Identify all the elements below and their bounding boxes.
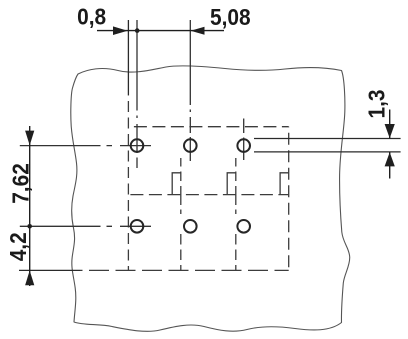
extension line x=128.4 (0,8 left / outline left edge), solid above plate: [127, 20, 129, 95]
arrow tip right at x=128.4 (0,8): [113, 26, 128, 35]
arrow down tip at row1: [25, 131, 34, 146]
dot marker at row2: [27, 224, 32, 229]
svg-text:7,62: 7,62: [7, 163, 33, 204]
dimension line top (0,8 / 5,08): [97, 30, 224, 32]
hole A3 (top row, col 3): [237, 139, 250, 152]
dimension line right (1,3): [389, 110, 391, 139]
dimension line left (7,62 / 4,2): [29, 126, 31, 286]
centre line col 1 (hole1): [136, 20, 138, 168]
svg-text:1,3: 1,3: [363, 89, 389, 118]
dashed outline: inner cell divider 1: [180, 158, 182, 270]
dashed component outline: top edge: [128, 126, 288, 128]
svg-text:5,08: 5,08: [210, 4, 251, 30]
centre line row 1: [20, 145, 151, 147]
dashed component outline: middle edge: [128, 194, 288, 196]
arrow tip left at x=190.3 (5,08): [191, 27, 205, 35]
dashed component outline: bottom edge: [80, 269, 289, 271]
svg-text:4,2: 4,2: [5, 232, 31, 261]
plate (torn-edge PCB section): [71, 66, 350, 332]
outline left edge dashed: [127, 95, 129, 270]
hole A2 (top row, col 2): [184, 139, 197, 152]
hole B2 (bottom row, col 2): [184, 220, 197, 233]
centre line col 3 stub: [243, 119, 245, 161]
outline step notch at divider 2: [227, 173, 236, 195]
svg-text:0,8: 0,8: [77, 3, 106, 29]
dashed outline: inner cell divider 2: [235, 158, 237, 270]
dot marker at col1 centre line: [135, 28, 140, 33]
centre line row 2: [20, 225, 151, 227]
hole diameter tangent line top (1,3): [254, 138, 401, 140]
hole A1 (top row, col 1): [131, 139, 144, 152]
outline step notch at right edge: [280, 173, 289, 195]
centre line col 2: [189, 20, 191, 161]
hole B1 (bottom row, col 1): [131, 220, 144, 233]
outline step notch at divider 1: [172, 173, 181, 195]
arrow up tip at outline bottom: [25, 271, 34, 286]
hole B3 (bottom row, col 3): [237, 220, 250, 233]
dashed outline: right edge: [288, 127, 290, 271]
arrow up tip at y=152.5: [385, 152, 395, 166]
hole diameter tangent line bottom (1,3): [254, 151, 401, 153]
arrow down tip at y=139: [385, 124, 395, 138]
extension line left of bottom edge: [19, 269, 80, 271]
